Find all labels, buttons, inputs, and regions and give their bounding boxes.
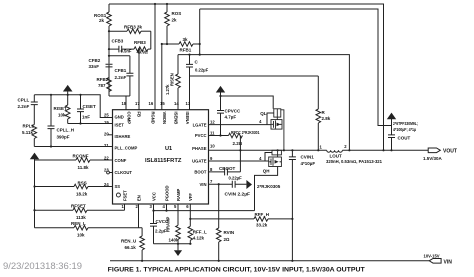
resistor REN_U: [139, 228, 143, 236]
svg-text:4.7µF: 4.7µF: [225, 115, 237, 120]
svg-text:113k: 113k: [76, 215, 86, 220]
resistor R 2.8k: [317, 76, 319, 109]
wire: [108, 26, 110, 96]
svg-text:EN: EN: [136, 195, 141, 201]
wire VCC pin: [153, 204, 155, 223]
resistor RRAMP: [177, 204, 179, 225]
svg-text:18: 18: [122, 101, 127, 106]
capacitor CVIN: [232, 181, 235, 188]
svg-text:RFB2: RFB2: [97, 77, 109, 82]
wire PGOOD pin: [166, 204, 168, 211]
svg-text:RFF_L: RFF_L: [193, 230, 207, 235]
svg-text:3k: 3k: [183, 37, 189, 42]
svg-text:RGND: RGND: [151, 112, 156, 124]
wire ISET node row: [68, 123, 113, 125]
svg-text:21: 21: [104, 143, 109, 148]
power flag VCC (left): [30, 153, 39, 160]
inductor LOUT: [327, 150, 343, 152]
svg-text:390pF: 390pF: [57, 135, 70, 140]
capacitor CVCC: [150, 224, 157, 227]
svg-text:CPLL_H: CPLL_H: [57, 128, 75, 133]
wire FSET pin: [124, 204, 126, 210]
svg-text:0.5nF: 0.5nF: [121, 49, 132, 54]
resistor RSS: [35, 186, 75, 188]
resistor RFSET: [35, 209, 74, 211]
svg-text:CFB2: CFB2: [89, 58, 101, 63]
svg-text:10V-15V: 10V-15V: [424, 253, 440, 258]
svg-text:4.12k: 4.12k: [193, 236, 205, 241]
svg-text:4: 4: [259, 156, 262, 161]
wire top VOUT rail: [109, 4, 384, 150]
resistor RFB2: [107, 78, 112, 92]
svg-text:14: 14: [174, 101, 179, 106]
svg-text:CPVCC: CPVCC: [225, 109, 242, 114]
wire CFB3 row: [109, 48, 134, 50]
wire GND rail: [154, 243, 192, 245]
junction dots PLL: [50, 94, 52, 96]
wire CLKOUT stub: [110, 172, 113, 174]
wire QH gate bus: [265, 153, 272, 162]
svg-text:4*10µF: 4*10µF: [301, 161, 316, 166]
svg-text:RAMP: RAMP: [176, 188, 181, 201]
svg-text:49.9Ω: 49.9Ω: [137, 50, 148, 55]
svg-text:ISHARE: ISHARE: [115, 134, 131, 139]
svg-text:9: 9: [210, 156, 213, 161]
resistor RFF_L: [188, 226, 193, 240]
svg-text:CVIN1: CVIN1: [301, 155, 315, 160]
svg-text:FSET: FSET: [122, 190, 127, 201]
svg-text:VCC: VCC: [151, 192, 156, 201]
wire remote sense drop: [199, 9, 201, 55]
svg-text:10k: 10k: [58, 113, 66, 118]
junction dots left bus: [33, 185, 35, 187]
svg-text:1nF: 1nF: [82, 115, 90, 120]
svg-text:1.27k: 1.27k: [165, 84, 170, 95]
svg-text:REN_L: REN_L: [71, 221, 86, 226]
wire sense row: [178, 55, 349, 151]
svg-text:12: 12: [210, 120, 215, 125]
svg-text:6: 6: [186, 204, 189, 209]
svg-text:BOOT: BOOT: [194, 170, 207, 175]
svg-text:2Ω: 2Ω: [224, 237, 231, 242]
wire PHASE row: [209, 149, 327, 151]
junction dots bottom: [152, 210, 154, 212]
pin1 dot: [116, 193, 120, 197]
svg-text:4: 4: [259, 119, 262, 124]
svg-text:33nF: 33nF: [89, 64, 100, 69]
svg-text:7: 7: [210, 179, 213, 184]
svg-text:RFB3: RFB3: [134, 40, 146, 45]
resistor RFB3 3k: [127, 29, 141, 34]
svg-text:20: 20: [104, 131, 109, 136]
svg-text:LGATE: LGATE: [193, 122, 207, 127]
svg-text:CBOOT: CBOOT: [219, 166, 236, 171]
svg-text:0.22µF: 0.22µF: [229, 176, 243, 181]
svg-text:VIN: VIN: [200, 182, 207, 187]
wire QL gate bus: [267, 113, 274, 125]
svg-text:2.2nF: 2.2nF: [115, 75, 127, 80]
svg-text:19: 19: [104, 120, 109, 125]
svg-text:ISENB: ISENB: [173, 112, 178, 125]
svg-text:0.22µF: 0.22µF: [195, 68, 209, 73]
svg-text:RISEN: RISEN: [170, 73, 175, 86]
resistor RFB1 3k: [179, 42, 193, 47]
wire left bias bus: [34, 159, 36, 228]
svg-text:SS: SS: [115, 184, 121, 189]
svg-text:4*100µF; 4*1µ: 4*100µF; 4*1µ: [393, 127, 416, 132]
svg-text:ISL8115FRTZ: ISL8115FRTZ: [145, 158, 182, 164]
wire QH drain/source: [255, 167, 278, 211]
svg-text:1.5V/30A: 1.5V/30A: [423, 156, 443, 161]
resistor RISET: [67, 95, 69, 105]
junction dots feedback: [108, 30, 110, 32]
svg-text:13: 13: [186, 101, 191, 106]
resistor RPLL: [32, 125, 37, 139]
svg-text:FIGURE 1. TYPICAL APPLICATION: FIGURE 1. TYPICAL APPLICATION CIRCUIT, 1…: [108, 267, 365, 274]
svg-text:COUT: COUT: [398, 136, 411, 141]
connector VIN: [429, 259, 441, 264]
svg-text:VOUT: VOUT: [443, 149, 457, 155]
svg-text:LOUT: LOUT: [330, 154, 342, 159]
wire VIN bottom rail: [110, 260, 429, 262]
svg-text:3: 3: [150, 204, 153, 209]
svg-text:ISET: ISET: [115, 123, 125, 128]
svg-text:2: 2: [344, 144, 347, 149]
svg-text:REN_U: REN_U: [121, 239, 136, 244]
node FB bus wire (left vertical): [108, 4, 110, 12]
svg-text:2.2nF: 2.2nF: [18, 104, 30, 109]
svg-text:CVIN 2.2µF: CVIN 2.2µF: [225, 192, 251, 197]
svg-text:17: 17: [135, 101, 140, 106]
connector VOUT: [428, 148, 440, 153]
wire VOUT line: [342, 149, 428, 151]
svg-text:RFF_H: RFF_H: [255, 212, 270, 217]
wire EN pin: [138, 204, 140, 228]
svg-text:RPLL: RPLL: [23, 124, 35, 129]
wire PGOOD row: [154, 210, 255, 212]
wire PVCC drive rail: [221, 96, 274, 109]
ground symbol: [177, 244, 179, 251]
resistor RISEN: [177, 55, 179, 74]
resistor RPCC: [209, 135, 229, 137]
svg-text:VIN: VIN: [444, 259, 453, 265]
wire FB pin17: [138, 49, 140, 110]
svg-text:VFF: VFF: [188, 193, 193, 201]
resistor RFF_H: [190, 218, 254, 220]
svg-text:RPCC 2*RJK0301: RPCC 2*RJK0301: [231, 130, 260, 135]
wire CFB1 top row: [109, 55, 130, 57]
svg-text:CLKOUT: CLKOUT: [115, 170, 133, 175]
svg-text:CFB3: CFB3: [112, 39, 124, 44]
capacitor CISET: [80, 95, 82, 109]
resistor ROS: [166, 4, 168, 12]
capacitor COUT: [388, 135, 395, 138]
IC U1 body: [113, 110, 209, 204]
svg-text:11: 11: [210, 131, 215, 136]
wire VFF pin: [189, 204, 191, 226]
svg-text:RFB3 3k: RFB3 3k: [124, 25, 143, 30]
svg-text:33.2k: 33.2k: [256, 223, 268, 228]
svg-text:66.1k: 66.1k: [125, 245, 137, 250]
svg-text:15: 15: [160, 101, 165, 106]
svg-text:PLL_COMP: PLL_COMP: [115, 146, 138, 151]
svg-text:ROS: ROS: [172, 11, 182, 16]
svg-text:2k: 2k: [99, 18, 105, 23]
wire RFB1 row: [162, 43, 179, 45]
svg-text:FB: FB: [136, 112, 141, 118]
svg-text:RFB1: RFB1: [180, 48, 192, 53]
svg-text:RFSET: RFSET: [71, 204, 86, 209]
resistor RVIN: [218, 184, 220, 228]
wire COMP pin18: [125, 96, 127, 110]
svg-text:25: 25: [104, 113, 109, 118]
svg-text:RISET: RISET: [54, 106, 68, 111]
svg-text:RCONF: RCONF: [73, 154, 89, 159]
svg-text:VMON: VMON: [162, 112, 167, 125]
junction dots VOUT: [348, 149, 350, 151]
svg-text:CISET: CISET: [83, 104, 97, 109]
capacitor C: [189, 55, 191, 65]
svg-text:16: 16: [149, 101, 154, 106]
resistor RFB3b 49.9: [134, 47, 148, 52]
wire CPLL top row: [34, 95, 112, 118]
junction dots power stage: [218, 183, 220, 185]
svg-text:1: 1: [320, 144, 323, 149]
svg-text:C: C: [195, 60, 199, 65]
svg-text:787: 787: [98, 83, 106, 88]
svg-text:18.2k: 18.2k: [76, 192, 88, 197]
svg-text:5: 5: [174, 204, 177, 209]
power flag PLL (left): [63, 85, 73, 92]
svg-text:RSS: RSS: [78, 181, 87, 186]
capacitor CBOOT: [209, 171, 241, 173]
svg-text:5.11k: 5.11k: [22, 130, 34, 135]
svg-text:RRAMP: RRAMP: [166, 216, 171, 232]
resistor RCONF: [35, 159, 77, 161]
svg-text:CONF: CONF: [115, 158, 127, 163]
svg-text:2.2Ω: 2.2Ω: [233, 141, 243, 146]
capacitor CFB1: [129, 56, 131, 73]
capacitor CVIN1: [291, 150, 293, 156]
svg-text:2.8k: 2.8k: [322, 116, 331, 121]
wire PLL_COMP row: [34, 146, 112, 148]
wire remote sense rail: [200, 9, 392, 126]
power arrow VIN pin: [246, 180, 252, 189]
svg-text:10k: 10k: [77, 233, 85, 238]
wire UGATE row: [209, 160, 269, 162]
wire RGND pin16: [154, 4, 156, 110]
resistor ROS1: [107, 12, 112, 26]
svg-text:UGATE: UGATE: [192, 159, 207, 164]
svg-text:GND: GND: [115, 115, 124, 120]
svg-text:RVIN: RVIN: [224, 230, 235, 235]
svg-text:CFB1: CFB1: [115, 68, 127, 73]
svg-text:ISENA: ISENA: [185, 112, 190, 125]
svg-text:PHASE: PHASE: [192, 146, 207, 151]
power flag VOUT / COUT branch: [387, 113, 396, 120]
svg-text:COMP: COMP: [126, 112, 131, 125]
resistor REN_L: [35, 227, 75, 229]
wire VMON pin15: [161, 44, 163, 110]
wire RFB3 3k row: [109, 30, 127, 32]
capacitor CFB2: [106, 64, 113, 65]
svg-text:11.8k: 11.8k: [78, 165, 90, 170]
svg-text:R: R: [322, 110, 326, 115]
svg-text:2*RJK0305: 2*RJK0305: [257, 184, 281, 189]
capacitor CPLL: [33, 95, 35, 102]
svg-text:320nH, 0.53mΩ, PA1513-321: 320nH, 0.53mΩ, PA1513-321: [326, 159, 383, 164]
svg-text:9/23/201318:36:19: 9/23/201318:36:19: [3, 261, 82, 271]
capacitor CPLL_H: [50, 95, 52, 126]
capacitor CFB3: [119, 46, 122, 53]
wire ISHARE stub: [108, 134, 113, 136]
svg-text:2*6TPF330M9L;: 2*6TPF330M9L;: [393, 121, 418, 126]
svg-text:CPLL: CPLL: [18, 98, 30, 103]
svg-text:PGOOD: PGOOD: [164, 185, 169, 201]
svg-text:2k: 2k: [172, 18, 178, 23]
svg-text:U1: U1: [165, 146, 172, 152]
wire VIN pin row: [209, 183, 247, 185]
wire ISENA row: [190, 76, 319, 110]
wire boot/phase link: [239, 136, 241, 172]
svg-text:4: 4: [163, 204, 166, 209]
svg-text:PVCC: PVCC: [195, 133, 207, 138]
capacitor CPVCC: [217, 111, 224, 114]
wire COMP row: [109, 95, 130, 97]
svg-text:QL: QL: [260, 111, 267, 116]
svg-text:140k: 140k: [169, 238, 180, 243]
svg-text:8: 8: [210, 167, 213, 172]
wire LGATE row: [209, 124, 272, 126]
svg-text:10: 10: [210, 143, 215, 148]
svg-text:QH: QH: [263, 168, 270, 173]
wire: [150, 31, 152, 49]
power flag PVCC: [216, 86, 225, 93]
